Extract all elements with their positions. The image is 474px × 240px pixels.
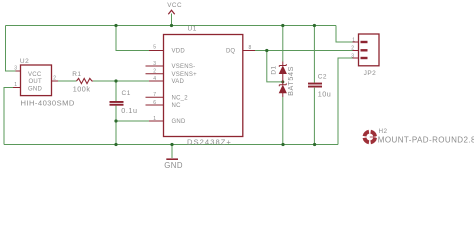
svg-text:1: 1 [352, 37, 355, 43]
wire top rail to D1 cathode [282, 26, 284, 62]
diode D1 BAT54S upper schottky [279, 62, 286, 85]
svg-text:100k: 100k [73, 85, 91, 94]
svg-text:NC: NC [172, 103, 182, 109]
svg-text:U1: U1 [188, 26, 197, 33]
sensor U2 HIH-4030SMD box [21, 65, 52, 96]
wire DQ net from U1 pin 8 to JP2 pin 2 [255, 50, 353, 52]
junction node VAD wire / C1 [114, 79, 117, 82]
U1 pin 6 NC stub [146, 104, 164, 106]
junction node bottom rail / D1 [281, 143, 284, 146]
svg-text:HIH-4030SMD: HIH-4030SMD [21, 99, 75, 108]
ground symbol GND [164, 159, 183, 170]
wire D1 anode to bottom rail [282, 97, 284, 145]
svg-text:5: 5 [153, 44, 156, 50]
svg-text:VSENS+: VSENS+ [172, 72, 198, 78]
svg-text:4: 4 [153, 76, 156, 82]
U1 pin 5 VDD stub [149, 50, 164, 52]
junction node bottom rail / C2 [313, 143, 316, 146]
svg-text:VDD: VDD [172, 49, 186, 55]
U2 pin 3 stub [16, 70, 21, 72]
wire top VCC rail [6, 25, 337, 27]
U1 pin 4 VAD stub [149, 80, 164, 82]
svg-text:C1: C1 [122, 90, 131, 97]
svg-text:GND: GND [28, 86, 43, 92]
svg-text:VSENS-: VSENS- [172, 64, 196, 70]
svg-text:1: 1 [14, 82, 17, 88]
JP2 pin 3 stub [353, 57, 359, 59]
wire top rail to JP2 pin 1 [336, 26, 353, 43]
U2 pin 1 stub [13, 87, 21, 89]
U1 pin 2 VSENS+ stub [146, 73, 164, 75]
svg-text:GND: GND [172, 119, 187, 125]
svg-text:VAD: VAD [172, 79, 185, 85]
svg-text:2: 2 [53, 76, 56, 82]
svg-text:3: 3 [153, 61, 156, 67]
wire U2 pin1 to bottom GND rail [4, 88, 13, 145]
svg-text:VCC: VCC [167, 2, 182, 9]
svg-text:2: 2 [351, 46, 354, 52]
junction node DQ / D1 tap [265, 49, 268, 52]
junction node top rail / C2 [313, 24, 316, 27]
svg-text:H2: H2 [379, 128, 388, 135]
svg-text:3: 3 [14, 66, 17, 72]
wire VDD drop from top rail to U1 pin 5 [116, 26, 149, 51]
op-amp / IC U1 DS2438Z+ box [164, 35, 243, 137]
svg-text:7: 7 [153, 92, 156, 98]
junction node C1 / U1 GND [114, 119, 117, 122]
svg-text:JP2: JP2 [364, 70, 377, 77]
svg-text:DS2438Z+: DS2438Z+ [187, 137, 232, 146]
wire U2 pin2 to R1 [58, 80, 77, 82]
svg-text:DQ: DQ [226, 49, 235, 55]
capacitor C1 plates [110, 101, 124, 106]
U1 pin 1 GND stub [149, 120, 164, 122]
wire bottom GND rail [4, 144, 338, 146]
wire GND symbol stem [171, 145, 173, 159]
JP2 pin 2 stub [353, 50, 359, 52]
junction node top rail / VDD drop [114, 24, 117, 27]
svg-text:0.1u: 0.1u [121, 106, 137, 115]
wire R1 to U1 VAD pin 4 [93, 80, 149, 82]
capacitor C2 plates [308, 83, 322, 88]
JP2 pin 2 bar [361, 49, 368, 51]
svg-text:2: 2 [153, 69, 156, 75]
junction node top rail / D1 [281, 24, 284, 27]
JP2 pin 3 bar [361, 57, 368, 59]
wire VCC symbol stem [171, 14, 173, 26]
diode D1 BAT54S lower schottky [279, 83, 286, 97]
svg-text:1: 1 [153, 116, 156, 122]
U2 pin 2 stub [52, 80, 59, 82]
svg-text:BAT54S: BAT54S [286, 66, 295, 96]
svg-text:C2: C2 [318, 74, 327, 81]
svg-text:NC_2: NC_2 [172, 96, 189, 102]
svg-text:D1: D1 [271, 65, 278, 74]
U1 pin 8 DQ stub [243, 50, 255, 52]
junction node bottom rail / GND symbol [170, 143, 173, 146]
svg-text:GND: GND [164, 161, 183, 170]
junction node top rail / VCC arrow [170, 24, 173, 27]
svg-text:MOUNT-PAD-ROUND2.8: MOUNT-PAD-ROUND2.8 [378, 136, 474, 145]
svg-text:VCC: VCC [28, 72, 42, 78]
JP2 pin 1 stub [353, 41, 359, 43]
svg-text:3: 3 [351, 53, 354, 59]
wire JP2 pin 3 to bottom rail [338, 58, 353, 145]
junction node D1 mid tap [281, 80, 284, 83]
resistor R1 100k zigzag [77, 78, 94, 83]
wire top rail to C2 [313, 26, 315, 83]
wire C1 bottom to rail [115, 106, 117, 145]
connector JP2 box [359, 34, 380, 66]
wire C1 top branch [115, 81, 117, 101]
svg-text:8: 8 [249, 45, 252, 51]
svg-text:R1: R1 [72, 71, 81, 78]
U1 pin 7 NC_2 stub [146, 96, 164, 98]
svg-text:10u: 10u [318, 89, 332, 98]
mount pad H2 annulus [365, 132, 377, 143]
svg-text:OUT: OUT [29, 79, 43, 85]
svg-text:U2: U2 [20, 58, 29, 65]
wire C2 to bottom rail [313, 88, 315, 145]
U1 pin 3 VSENS- stub [146, 65, 164, 67]
wire DQ to D1 mid tap [267, 51, 283, 82]
junction node bottom rail / C1 [114, 143, 117, 146]
VCC supply symbol arrow [168, 10, 174, 14]
JP2 pin 1 bar [361, 41, 368, 43]
svg-text:6: 6 [153, 100, 156, 106]
wire C1 node to U1 GND pin 1 [116, 120, 149, 122]
wire left drop from top rail to U2 pin 3 [6, 26, 16, 72]
